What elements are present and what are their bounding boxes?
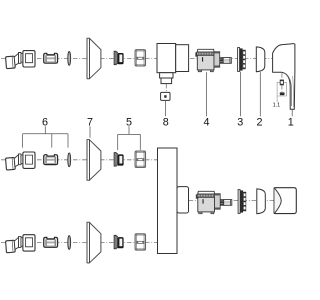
svg-text:3: 3 — [237, 116, 243, 128]
svg-text:1.1: 1.1 — [273, 102, 281, 108]
svg-text:4: 4 — [203, 116, 209, 128]
svg-text:6: 6 — [42, 116, 48, 128]
svg-text:7: 7 — [87, 116, 93, 128]
svg-text:8: 8 — [163, 116, 169, 128]
svg-text:5: 5 — [126, 116, 132, 128]
svg-text:2: 2 — [256, 116, 262, 128]
svg-text:1: 1 — [288, 116, 294, 128]
